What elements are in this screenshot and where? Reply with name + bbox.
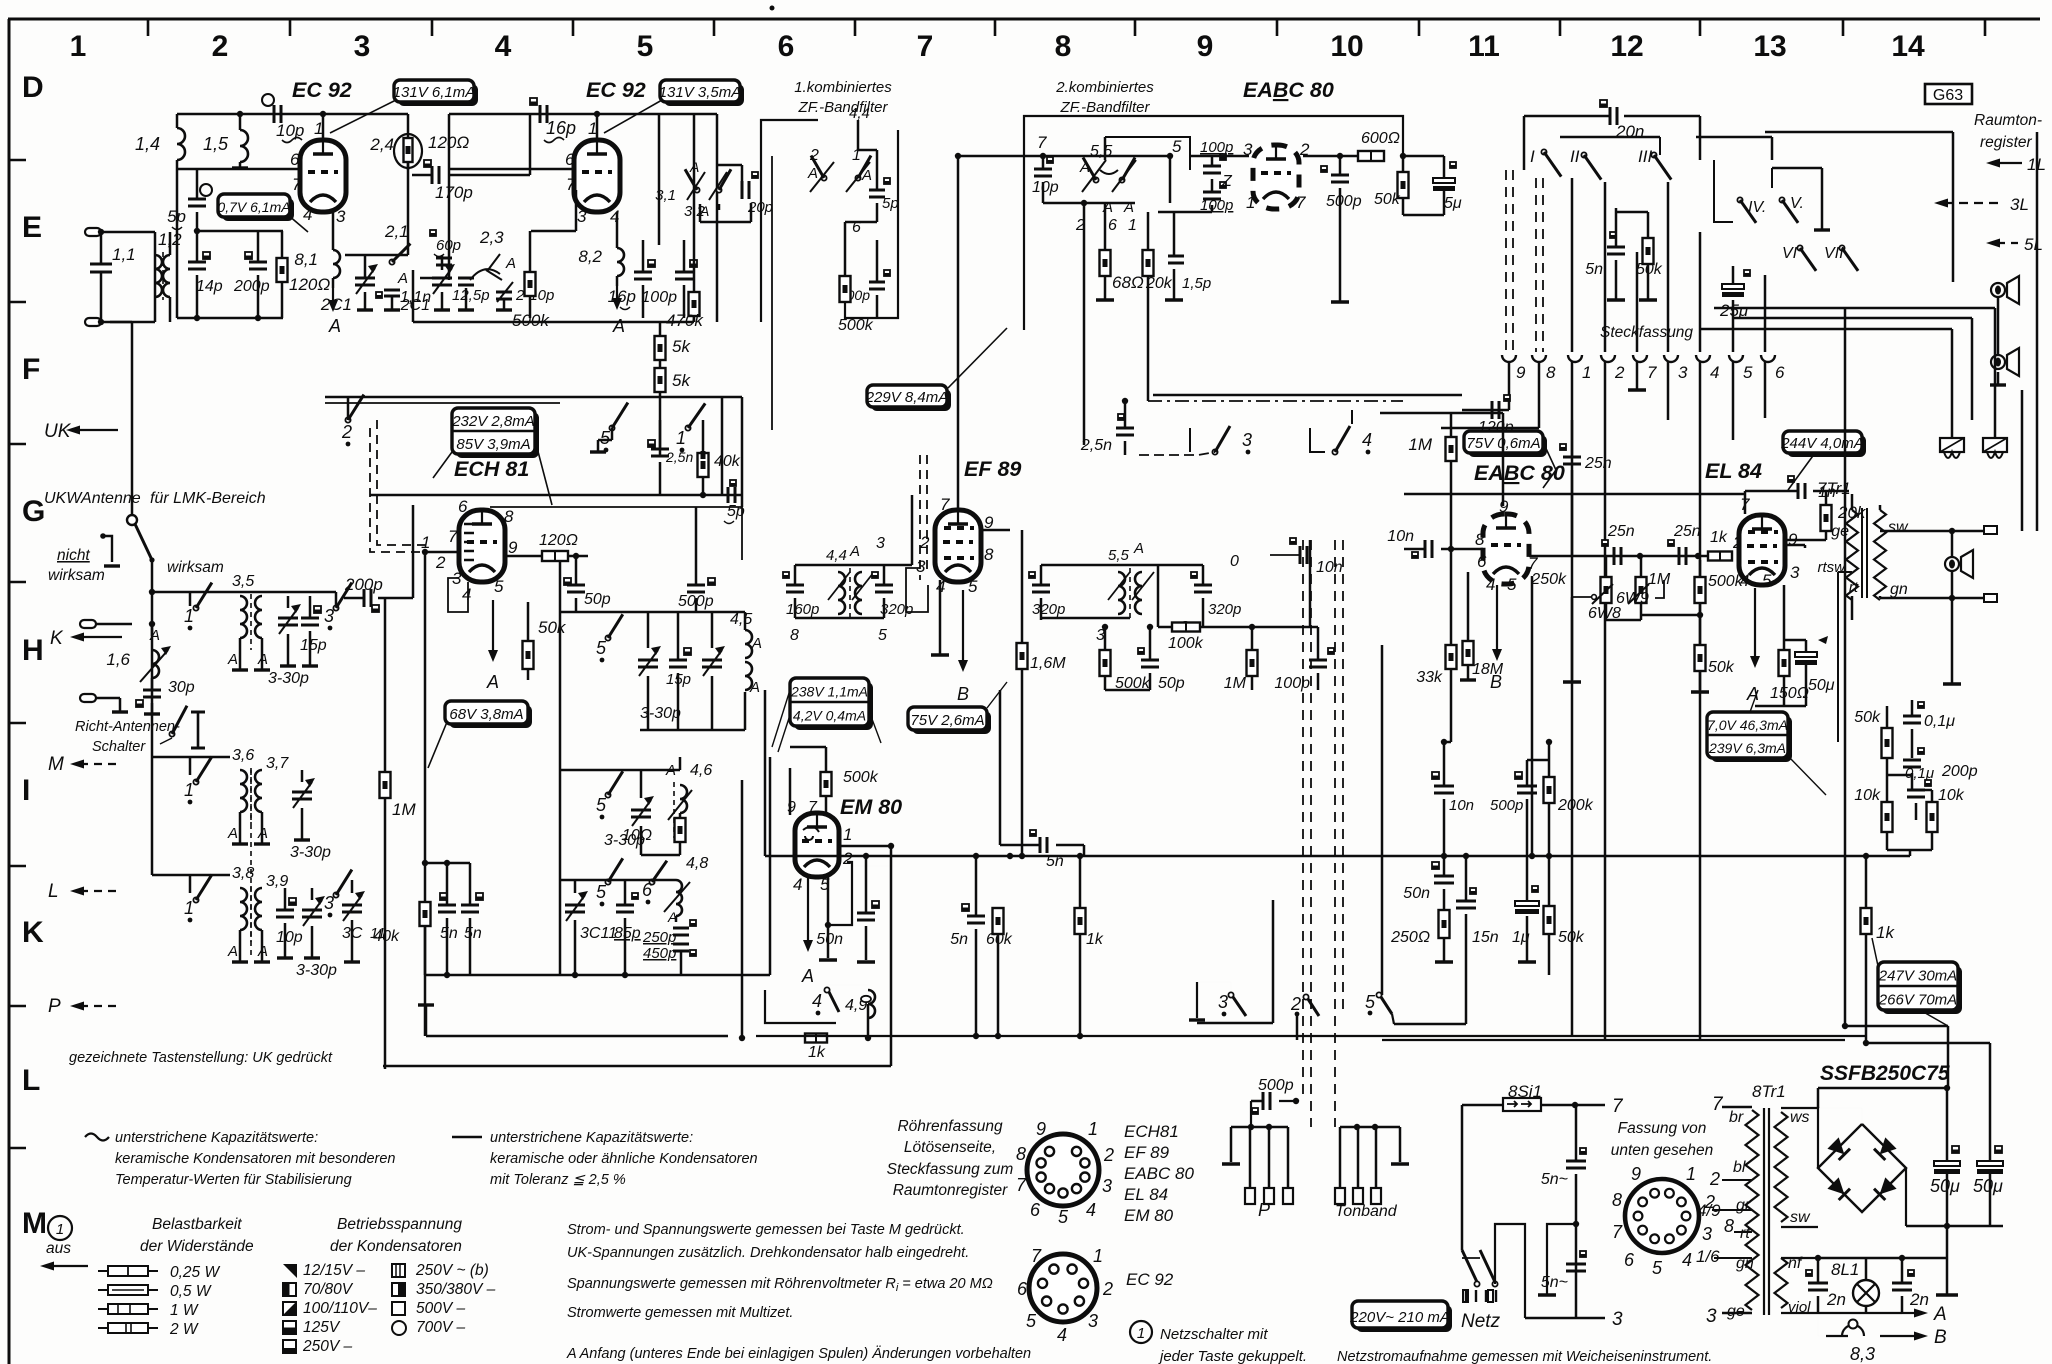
svg-text:II: II [1570, 147, 1580, 166]
IF transformer coils [838, 572, 845, 614]
antenna capacitor 1,1 [90, 263, 112, 266]
Tonband rail ground [1399, 1127, 1402, 1162]
band switch 2 (UKW) [345, 417, 350, 422]
band switch 5 osc top [609, 425, 614, 430]
mains wiring [1462, 1104, 1503, 1107]
connector terminal H lower [80, 694, 96, 702]
filter1 trimmer B (1) [855, 175, 860, 180]
svg-text:3: 3 [354, 30, 371, 63]
svg-text:3-30p: 3-30p [290, 844, 331, 861]
svg-text:350/380V –: 350/380V – [416, 1281, 496, 1298]
measurement box 131V 6,1mA [398, 84, 478, 106]
resistor 10k b [1927, 802, 1938, 832]
filter2 node 5 loop [1105, 137, 1190, 170]
svg-text:8: 8 [1724, 1216, 1734, 1236]
svg-text:A: A [227, 943, 238, 960]
EM80 pin5/pin2 loop [828, 862, 852, 925]
8Tr1 HT secondary winding [1775, 1112, 1788, 1222]
arrow 1L [1996, 162, 2022, 164]
osc tuned circuit 4,8 [605, 879, 610, 884]
noval socket diagram [1027, 1134, 1099, 1206]
svg-text:rt: rt [1740, 1225, 1750, 1242]
resistor 1,6M [1017, 643, 1028, 669]
svg-text:3,9: 3,9 [266, 873, 288, 890]
svg-text:6: 6 [565, 150, 575, 169]
svg-text:A: A [505, 255, 516, 272]
bank top rail [1560, 136, 1660, 139]
svg-text:120Ω: 120Ω [539, 532, 578, 549]
svg-text:5n: 5n [950, 931, 968, 948]
capacitor 2,5n osc [651, 448, 669, 451]
svg-text:2C1: 2C1 [320, 295, 352, 314]
measurement box 75V 2,6mA [912, 711, 991, 734]
power socket diagram [1625, 1179, 1699, 1253]
pentode EF89 [935, 510, 981, 582]
resistor 470k [689, 292, 700, 316]
svg-text:2: 2 [1709, 1169, 1720, 1189]
resistor 5k (upper) [655, 336, 666, 360]
field coil symbols [1940, 438, 1964, 452]
svg-text:50n: 50n [1403, 885, 1430, 902]
band switch 1 (3,5) [193, 605, 198, 610]
svg-text:4,4: 4,4 [849, 105, 870, 122]
svg-text:keramische Kondensatoren mit b: keramische Kondensatoren mit besonderen [115, 1151, 396, 1167]
svg-text:1M: 1M [1648, 571, 1671, 588]
svg-text:0,7V 6,1mA: 0,7V 6,1mA [217, 199, 290, 215]
filter1 trimmer A (2) [821, 175, 826, 180]
resistor 20k [1143, 250, 1154, 276]
svg-text:8: 8 [1546, 363, 1556, 382]
svg-text:Röhrenfassung: Röhrenfassung [897, 1118, 1003, 1135]
svg-text:232V 2,8mA: 232V 2,8mA [451, 413, 535, 430]
EF89 grid dashed pair [919, 455, 921, 580]
svg-text:SSFB250C75: SSFB250C75 [1820, 1062, 1950, 1085]
capacitor 2,5n AVC [1116, 427, 1134, 430]
svg-text:jeder Taste gekuppelt.: jeder Taste gekuppelt. [1158, 1348, 1307, 1364]
capacitor 320p (filter sec) [875, 584, 893, 587]
svg-text:7: 7 [1016, 1175, 1027, 1195]
bridge diode 1 [1827, 1137, 1844, 1154]
register switch I [1541, 149, 1546, 154]
register output wires right [1765, 131, 1953, 134]
filter2 capacitor 10p [1034, 168, 1052, 171]
svg-text:8: 8 [790, 627, 799, 644]
svg-text:200p: 200p [1941, 763, 1978, 780]
pointer 244V box [1788, 453, 1815, 490]
resistor 1k bus [1075, 908, 1086, 934]
svg-text:unten gesehen: unten gesehen [1611, 1142, 1714, 1159]
svg-text:3: 3 [1706, 1306, 1717, 1327]
measurement box 229V 8,4mA [871, 389, 951, 411]
svg-text:7,0V 46,3mA: 7,0V 46,3mA [1707, 717, 1788, 733]
left border tick marks [9, 159, 26, 162]
7Tr1 connections [1851, 494, 1854, 510]
electrolytic 25u [1722, 284, 1744, 289]
svg-text:5,5: 5,5 [1090, 143, 1112, 160]
wires below hooks [1508, 362, 1511, 410]
svg-text:M: M [48, 754, 64, 775]
antenna terminal lower [85, 318, 101, 326]
svg-text:1: 1 [843, 825, 852, 844]
cathode coil 8,2 [617, 248, 624, 276]
svg-text:10p: 10p [276, 121, 304, 140]
trimmer 3-30p [292, 791, 312, 794]
svg-text:2,3: 2,3 [479, 228, 504, 247]
V4 output node [1400, 153, 1406, 159]
capacitor 5n det-AF [1039, 837, 1042, 853]
pointer lines from 232V box [433, 452, 452, 478]
svg-text:0: 0 [1230, 553, 1239, 570]
svg-text:3: 3 [577, 207, 587, 226]
svg-text:50p: 50p [584, 591, 611, 608]
svg-text:ws: ws [1790, 1109, 1810, 1126]
svg-text:sw: sw [1888, 519, 1909, 536]
svg-text:5k: 5k [672, 337, 691, 356]
grid tap vertical x530 [529, 114, 532, 175]
svg-text:3: 3 [1218, 992, 1228, 1012]
capacitor 10n ratio-det [1434, 785, 1454, 788]
capacitor 320p det (right) [1194, 584, 1212, 587]
svg-text:200p: 200p [233, 278, 270, 295]
svg-text:K: K [22, 916, 44, 949]
svg-text:5: 5 [494, 577, 504, 596]
svg-text:EM 80: EM 80 [840, 795, 902, 819]
svg-text:9: 9 [1499, 497, 1509, 516]
svg-text:L: L [22, 1064, 40, 1097]
coupling capacitor 170p [431, 166, 434, 184]
pointers 238V box [772, 690, 790, 747]
resistor 40k osc [698, 453, 709, 477]
resistor 50k ECH81 [523, 641, 534, 669]
switch 3 (P row) [1228, 992, 1233, 997]
EC92 socket diagram [1029, 1254, 1097, 1322]
measurement box 75V 0,6mA [1468, 435, 1547, 457]
filter2 lower rail [1043, 202, 1135, 205]
svg-text:100p: 100p [641, 289, 677, 306]
resistor 150ohm [1779, 650, 1790, 676]
register switch V [1779, 197, 1784, 202]
dashed grid feed pair from switch 2 [370, 428, 428, 552]
pointer 247V box [1872, 938, 1878, 966]
lower rail y1066 [383, 1065, 891, 1068]
svg-text:3-30p: 3-30p [640, 705, 681, 722]
svg-text:4,2V 0,4mA: 4,2V 0,4mA [793, 708, 866, 724]
svg-text:5: 5 [1762, 571, 1772, 590]
svg-text:8,1: 8,1 [294, 250, 318, 269]
svg-text:für LMK-Bereich: für LMK-Bereich [150, 490, 266, 507]
row K block rail [152, 591, 336, 594]
svg-text:1: 1 [314, 119, 323, 138]
pointer 68V box [428, 722, 447, 768]
arrow to A (anode supply) V1 cathode [332, 288, 334, 308]
EF89 anode wire [982, 529, 1010, 532]
measurement box 220V ~ 210 mA [1356, 1305, 1452, 1332]
top rail to output transformer [1404, 493, 1745, 496]
svg-text:5: 5 [968, 577, 978, 596]
svg-text:68Ω: 68Ω [1112, 273, 1144, 292]
svg-text:A: A [807, 165, 818, 182]
svg-text:6: 6 [778, 30, 795, 63]
svg-text:68V 3,8mA: 68V 3,8mA [449, 706, 523, 723]
svg-text:50μ: 50μ [1808, 677, 1835, 694]
grid wire stage2 [449, 168, 576, 171]
band switch 3 [333, 605, 338, 610]
svg-text:3: 3 [324, 893, 334, 913]
switch 3 bracket and ground [1196, 982, 1198, 1018]
svg-text:A: A [861, 167, 872, 184]
resistor 500k EM80 grid [821, 772, 832, 796]
svg-text:4: 4 [462, 585, 471, 604]
svg-text:50μ: 50μ [1930, 1176, 1960, 1196]
svg-text:16p: 16p [546, 118, 576, 138]
svg-text:239V 6,3mA: 239V 6,3mA [1708, 740, 1786, 756]
bridge output wiring [1818, 1108, 1862, 1124]
svg-text:4: 4 [812, 991, 822, 1011]
osc tuned circuit 4,5 [605, 635, 610, 640]
svg-text:A: A [612, 316, 625, 336]
capacitor 15n [1456, 900, 1476, 903]
left rail stage1 [176, 169, 179, 318]
svg-text:2n: 2n [1826, 1290, 1846, 1309]
svg-text:VI: VI [1782, 245, 1798, 262]
register switch IV [1737, 197, 1742, 202]
resistor 500k osc [525, 272, 536, 296]
fuse 8Si1 [1503, 1098, 1541, 1111]
capacitor 200p [249, 261, 267, 264]
svg-text:2,5n: 2,5n [1080, 437, 1112, 454]
output transformer 7Tr1 primary [1846, 510, 1858, 600]
svg-text:15p: 15p [300, 637, 327, 654]
svg-text:3: 3 [324, 606, 334, 626]
svg-text:I: I [22, 774, 30, 807]
smoothing electrolytic 50u (b) [1977, 1161, 2003, 1166]
svg-text:V.: V. [1790, 195, 1804, 212]
IF input wire 7 [958, 155, 1170, 158]
svg-text:220V~ 210 mA: 220V~ 210 mA [1349, 1309, 1450, 1326]
svg-text:aus: aus [46, 1240, 71, 1257]
long vertical feed right of filter1 [771, 156, 773, 430]
legend squiggle symbol [85, 1134, 109, 1141]
svg-text:160p: 160p [786, 601, 819, 618]
svg-text:Schalter: Schalter [92, 739, 146, 755]
oscillator block rails [741, 397, 744, 507]
line noise cap node [1573, 1221, 1579, 1227]
resistor 120ohm IF [542, 551, 568, 561]
capacitor 1,5p [1168, 255, 1184, 258]
svg-text:nicht: nicht [57, 547, 90, 564]
bridge rectifier diamond [1818, 1124, 1906, 1212]
svg-text:2: 2 [435, 553, 446, 572]
svg-text:8Tr1: 8Tr1 [1752, 1082, 1786, 1101]
resistor 50k det [1398, 172, 1409, 198]
svg-text:10k: 10k [1938, 787, 1965, 804]
svg-text:5: 5 [1365, 992, 1376, 1012]
electrolytic 1u [1515, 901, 1539, 906]
svg-text:40k: 40k [714, 453, 741, 470]
IF feed line y395 [1153, 394, 1462, 397]
svg-text:238V 1,1mA: 238V 1,1mA [790, 684, 868, 700]
EL84 screen wire [1786, 544, 1805, 547]
svg-text:Strom- und Spannungswerte geme: Strom- und Spannungswerte gemessen bei T… [567, 1222, 965, 1238]
svg-text:3: 3 [916, 557, 926, 576]
grid ladder ECH81 [464, 524, 474, 560]
svg-text:6: 6 [1624, 1250, 1635, 1270]
resistor 10ohm [675, 818, 686, 842]
top rail of ECH81 block [325, 396, 742, 399]
capacitor 30p [143, 689, 161, 692]
junction dots stage1 top [237, 111, 243, 117]
svg-text:10k: 10k [1854, 787, 1881, 804]
top border tick marks [147, 19, 150, 36]
core dash line rows M-L [250, 770, 252, 955]
capacitor 2n (a) [1808, 1282, 1828, 1285]
svg-text:5n: 5n [1585, 261, 1603, 278]
svg-text:G63: G63 [1933, 87, 1963, 104]
svg-text:2,5n: 2,5n [665, 449, 693, 465]
svg-text:100p: 100p [1200, 139, 1233, 156]
svg-text:1: 1 [70, 30, 87, 63]
svg-text:3C11: 3C11 [580, 925, 617, 942]
capacitor 100p stage2 [675, 271, 693, 274]
svg-text:B: B [957, 684, 969, 704]
svg-text:EC 92: EC 92 [292, 78, 352, 102]
capacitor 5p grid [188, 198, 206, 201]
filter2 coupled trimmers [1093, 177, 1098, 182]
svg-text:A: A [1133, 540, 1144, 557]
svg-text:2: 2 [1290, 994, 1301, 1014]
rail above oscillator circuits [370, 494, 742, 497]
V4 anode wire [1303, 155, 1361, 158]
svg-text:12,5p: 12,5p [452, 287, 490, 304]
resistor 33k [1446, 645, 1457, 669]
1st IF secondary: capacitor 160p [786, 584, 804, 587]
legend dash symbol [452, 1136, 482, 1138]
svg-text:450p: 450p [643, 945, 676, 962]
ground stub lower 5n [1547, 1224, 1576, 1295]
svg-text:5p: 5p [882, 195, 899, 212]
svg-text:2C1: 2C1 [400, 297, 430, 314]
pointer from 0,7V box [288, 215, 308, 232]
small box G63 [1925, 84, 1972, 104]
svg-text:8: 8 [504, 507, 514, 526]
svg-text:P: P [48, 996, 61, 1017]
svg-text:4,8: 4,8 [686, 855, 708, 872]
svg-text:G: G [22, 495, 45, 528]
svg-text:UK: UK [44, 421, 72, 442]
resistor 250ohm [1439, 910, 1450, 938]
svg-text:1: 1 [676, 428, 686, 448]
svg-text:3: 3 [1102, 1176, 1112, 1196]
svg-text:10p: 10p [276, 929, 303, 946]
capacitor 60p [436, 257, 452, 260]
trimmer 3C11 row L [342, 904, 362, 907]
svg-text:100p: 100p [1274, 675, 1310, 692]
svg-text:A: A [149, 627, 160, 644]
capacitor 500p P [1262, 1092, 1265, 1110]
filter1 resistor 500k [840, 276, 851, 302]
svg-text:UKWAntenne: UKWAntenne [44, 490, 141, 507]
svg-text:3: 3 [336, 207, 346, 226]
svg-text:7: 7 [1612, 1096, 1624, 1117]
measurement box 244V 4,0mA [1787, 435, 1866, 457]
antenna transformer 1,2 [155, 255, 162, 297]
svg-text:250Ω: 250Ω [1390, 929, 1430, 946]
right rail oscillator [769, 757, 772, 975]
svg-text:Raumtonregister: Raumtonregister [893, 1182, 1008, 1199]
svg-text:1,5p: 1,5p [1182, 275, 1211, 292]
EABC80 V5 pin7 to bus [1531, 576, 1534, 856]
svg-text:3: 3 [1612, 1309, 1623, 1330]
measurement box 238V 1,1mA / 4,2V 0,4mA [794, 682, 873, 730]
register switch II [1581, 152, 1586, 157]
register switch VII [1839, 245, 1844, 250]
parasitic choke 2,4 with 120ohm [404, 138, 413, 162]
right B+ vertical [1844, 308, 1847, 1026]
svg-text:120Ω: 120Ω [289, 275, 330, 294]
svg-text:1k: 1k [1710, 529, 1728, 546]
pointer 266V box [1920, 1010, 1948, 1026]
svg-text:10n: 10n [1387, 528, 1414, 545]
tweeter speaker 2 [1991, 355, 2005, 369]
resistor 1k AF [1708, 552, 1732, 561]
svg-text:16p: 16p [608, 287, 636, 306]
svg-text:EC 92: EC 92 [1126, 1270, 1174, 1289]
border frame left [8, 19, 11, 1364]
svg-text:1 W: 1 W [170, 1302, 199, 1319]
svg-text:266V 70mA: 266V 70mA [1878, 992, 1957, 1009]
svg-text:wirksam: wirksam [167, 559, 224, 576]
svg-text:1.kombiniertes: 1.kombiniertes [794, 79, 892, 96]
electrolytic 50u cathode [1795, 652, 1817, 657]
svg-text:UK-Spannungen zusätzlich. Dreh: UK-Spannungen zusätzlich. Drehkondensato… [567, 1245, 969, 1261]
wire to switch bracket vertical [1272, 900, 1275, 1023]
resistor 40k EF89 screen [698, 454, 709, 456]
svg-text:gr: gr [1736, 1197, 1751, 1214]
switch 4 (mid) [1332, 449, 1337, 454]
svg-text:320p: 320p [1208, 601, 1241, 618]
pointer 229V box [948, 328, 1007, 388]
svg-text:gezeichnete Tastenstellung: UK: gezeichnete Tastenstellung: UK gedrückt [69, 1050, 333, 1066]
svg-text:500k: 500k [843, 769, 879, 786]
svg-text:unterstrichene Kapazitätswerte: unterstrichene Kapazitätswerte: [490, 1130, 693, 1146]
coil 1,5 [240, 130, 248, 162]
svg-text:A Anfang (unteres Ende bei ein: A Anfang (unteres Ende bei einlagigen Sp… [566, 1345, 1031, 1362]
svg-text:Belastbarkeit: Belastbarkeit [152, 1216, 242, 1233]
svg-text:12: 12 [1610, 30, 1643, 63]
resistor 18M [1463, 641, 1474, 665]
svg-text:der Widerstände: der Widerstände [140, 1238, 254, 1255]
svg-text:8: 8 [1612, 1190, 1622, 1210]
svg-text:1: 1 [1128, 217, 1137, 234]
vertical EM80 ground stub [425, 1005, 428, 1036]
resistor wattage table [98, 1270, 158, 1272]
svg-text:229V 8,4mA: 229V 8,4mA [865, 389, 949, 406]
svg-text:5n: 5n [464, 925, 482, 942]
bottom rail stage1 [177, 317, 283, 320]
svg-text:5n~: 5n~ [1541, 1274, 1568, 1291]
tuning coil pair 3,6/3,7 [240, 770, 247, 812]
svg-text:5,5: 5,5 [1108, 547, 1130, 564]
capacitor 200p (mixer coupling) [363, 589, 366, 607]
capacitor 2n (b) [1892, 1282, 1912, 1285]
svg-text:1,6M: 1,6M [1030, 655, 1066, 672]
switch 4 / coil 4,9 (osc keying) [824, 987, 829, 992]
svg-text:EABC 80: EABC 80 [1124, 1164, 1194, 1183]
band switch 1 (3,6) [193, 779, 198, 784]
svg-text:14p: 14p [196, 278, 223, 295]
capacitor 100p det [1309, 659, 1327, 662]
AVC line down from filter2 [1083, 203, 1086, 445]
